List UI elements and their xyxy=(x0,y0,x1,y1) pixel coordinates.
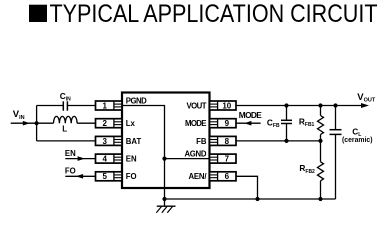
wire (internal AGND) xyxy=(165,158,210,160)
svg-text:PGND: PGND xyxy=(126,96,147,105)
svg-text:BAT: BAT xyxy=(126,137,142,146)
node MODE input xyxy=(236,110,262,126)
svg-text:EN: EN xyxy=(65,149,76,158)
svg-text:10: 10 xyxy=(222,101,231,110)
node VOUT xyxy=(357,92,376,108)
svg-text:FO: FO xyxy=(65,167,76,176)
node (RFB2 ground junction) xyxy=(318,197,322,201)
wire (VIN vertical branch) xyxy=(36,106,38,141)
capacitor CL xyxy=(330,106,373,200)
wire (BAT branch to pin 3) xyxy=(37,140,96,142)
wire (AEN/ to ground rail) xyxy=(236,176,258,199)
wire (ground rail) xyxy=(165,198,336,200)
pin 2 xyxy=(96,119,123,128)
wire (CIN branch right to pin 1) xyxy=(67,105,95,107)
svg-text:2: 2 xyxy=(102,119,107,128)
wire (VOUT rail) xyxy=(236,105,362,107)
node (CFB top junction) xyxy=(284,103,288,107)
pin 10 xyxy=(210,101,237,110)
svg-text:AEN/: AEN/ xyxy=(189,172,208,181)
node (CFB bottom junction) xyxy=(284,139,288,143)
node (AEN ground junction) xyxy=(255,197,259,201)
svg-text:VOUT: VOUT xyxy=(187,101,207,110)
capacitor CIN xyxy=(60,91,71,111)
pin 7 xyxy=(210,154,237,163)
svg-text:MODE: MODE xyxy=(239,110,262,120)
pin 1 xyxy=(96,101,123,110)
node (RFB1/RFB2 FB junction) xyxy=(318,139,322,143)
pin 4 xyxy=(96,154,123,163)
node (AGND junction) xyxy=(162,157,166,161)
node (RFB1 top junction) xyxy=(318,103,322,107)
op-amp U1 (IC body) xyxy=(122,93,210,189)
svg-text:3: 3 xyxy=(102,137,107,146)
ground xyxy=(156,199,175,213)
pin 6 xyxy=(210,172,237,181)
svg-text:1: 1 xyxy=(102,101,107,110)
pin 3 xyxy=(96,136,123,145)
wire (internal PGND to ground) xyxy=(122,106,165,200)
svg-text:FB: FB xyxy=(196,137,207,146)
pin 5 xyxy=(96,172,123,181)
svg-text:9: 9 xyxy=(225,119,230,128)
pin 9 xyxy=(210,119,237,128)
node (CL top junction) xyxy=(333,103,337,107)
wire (inductor to pin 2) xyxy=(77,122,95,124)
wire (VIN to inductor) xyxy=(37,122,54,124)
node VIN xyxy=(11,109,39,125)
pin 8 xyxy=(210,136,237,145)
svg-text:TYPICAL APPLICATION CIRCUIT: TYPICAL APPLICATION CIRCUIT xyxy=(50,0,378,28)
title: TYPICAL APPLICATION CIRCUIT xyxy=(29,0,378,28)
wire (CIN branch left) xyxy=(37,105,63,107)
svg-text:(ceramic): (ceramic) xyxy=(342,137,373,144)
capacitor CFB xyxy=(267,106,292,141)
svg-text:MODE: MODE xyxy=(185,119,207,128)
svg-text:EN: EN xyxy=(126,155,137,164)
svg-text:5: 5 xyxy=(102,172,107,181)
node FO output xyxy=(65,167,96,179)
node EN input xyxy=(65,149,96,161)
svg-text:4: 4 xyxy=(102,155,107,164)
svg-text:8: 8 xyxy=(225,137,230,146)
svg-text:6: 6 xyxy=(225,172,230,181)
svg-text:L: L xyxy=(62,125,67,134)
svg-text:FO: FO xyxy=(126,172,137,181)
svg-text:AGND: AGND xyxy=(185,149,207,158)
resistor RFB2 xyxy=(299,141,323,199)
node (ground junction) xyxy=(162,197,166,201)
inductor L xyxy=(54,116,78,133)
resistor RFB1 xyxy=(299,106,324,141)
wire (FB rail) xyxy=(236,140,321,142)
svg-text:Lx: Lx xyxy=(126,119,136,128)
svg-text:7: 7 xyxy=(225,155,230,164)
